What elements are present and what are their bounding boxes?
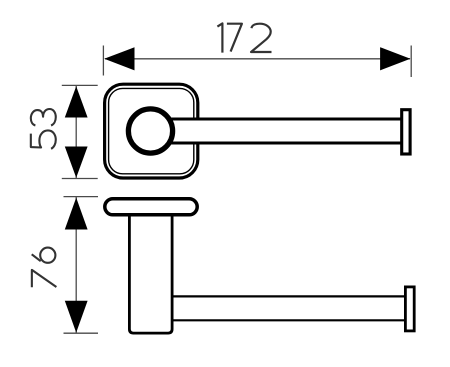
bar end cap (top view) [402,110,410,154]
holder bar top edge (side view) [173,295,406,297]
holder bar top edge (top view) [170,118,402,121]
arrowhead left of 172 [104,47,134,70]
roller post circle (top view) [128,109,172,153]
wire dimension line 53 [75,86,77,178]
value label 172 [217,23,271,52]
mounting post (side view) [129,215,172,333]
arrowhead right of 172 [380,47,410,70]
wire dimension line 172 [105,58,410,60]
arrowhead down of 53 [65,147,88,178]
node left extension line of 172 [102,46,104,76]
node top extension tick of 76 [64,196,99,198]
value label 76 (rotated) [32,248,57,288]
arrowhead down of 76 [65,301,88,333]
node top extension tick of 53 [62,84,98,86]
arrowhead up of 76 [65,198,88,230]
arrowhead up of 53 [65,86,88,117]
value label 53 (rotated) [31,109,56,149]
wall plate (side view) [105,199,197,215]
bar end cap (side view) [405,287,414,331]
wall plate inner line (top view) [109,88,194,173]
wire dimension line 76 [75,197,77,333]
holder bar bottom edge (side view) [173,319,406,321]
node bottom extension tick of 53 [62,178,98,180]
node right extension line of 172 [410,46,412,78]
holder bar bottom edge (top view) [170,142,402,145]
node bottom extension tick of 76 [64,332,99,334]
wall plate outer outline (top view) [105,84,198,178]
holder bar (top view) white body [170,120,402,142]
